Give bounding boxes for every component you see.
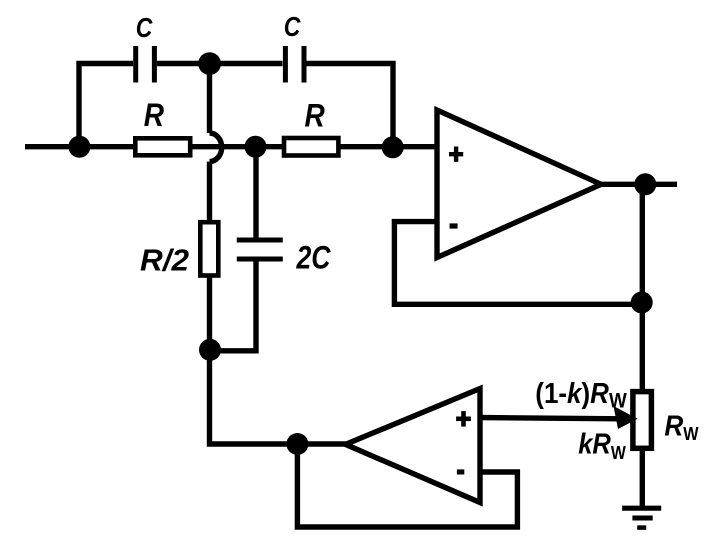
node: twin-T center junction dot: [245, 136, 267, 158]
svg-text:R: R: [144, 97, 164, 133]
wire: C3 bottom to node J5: [210, 260, 256, 351]
op-amp U2 minus sign: [457, 469, 464, 474]
svg-text:C: C: [284, 11, 301, 42]
wire: main input horizontal line: [25, 144, 440, 149]
capacitor C2 plates: [285, 46, 304, 83]
wire: C2 to op-amp U1 + input riser: [307, 64, 394, 151]
wire: U1 output to right: [598, 182, 677, 187]
resistor R2: [284, 138, 338, 156]
op-amp U1 minus sign: [450, 223, 458, 228]
op-amp U1: [437, 110, 601, 258]
wire: U1 output down to potentiometer RW: [640, 184, 645, 392]
node J5: R/2 and 2C bottom junction dot: [199, 339, 221, 361]
wire: node A vertical down to hop: [207, 61, 212, 133]
svg-text:R/2: R/2: [140, 242, 189, 277]
wire hop: crossing arc over main wire: [210, 133, 222, 162]
op-amp U2 plus sign: [456, 411, 471, 427]
node: input junction dot: [68, 136, 90, 158]
wire: U2 feedback output to inverting input: [297, 444, 517, 527]
svg-text:RW: RW: [664, 411, 698, 445]
svg-text:C: C: [136, 12, 153, 43]
wire: hop down to R3: [207, 162, 212, 223]
wire: node A to C2: [209, 61, 283, 66]
wire: left vertical riser to top-T: [79, 64, 133, 148]
op-amp U2: [346, 389, 481, 503]
capacitor C1 plates: [136, 46, 155, 83]
wiper arrowhead: [614, 406, 638, 429]
svg-text:(1-k)RW: (1-k)RW: [535, 378, 627, 413]
resistor R3 (R/2): [200, 222, 218, 275]
node: U1 + input junction dot: [382, 136, 404, 158]
node: U2 output junction dot: [286, 433, 308, 455]
wire: node J5 down and right to op-amp U2 output: [210, 348, 353, 444]
wire: wiper arrow line from U2 + input: [478, 418, 622, 419]
node: feedback junction dot on pot line: [631, 292, 653, 314]
wire: U1 feedback from - input to output node: [394, 222, 641, 305]
node: U1 output junction dot: [634, 173, 656, 195]
svg-text:kRW: kRW: [578, 429, 626, 464]
capacitor C3 (2C) plates: [237, 240, 283, 259]
ground: [622, 508, 661, 527]
potentiometer RW body: [633, 392, 652, 449]
resistor R1: [135, 138, 190, 155]
wire: between C1 and node A: [157, 61, 212, 66]
wire: node D3 down to capacitor C3: [253, 145, 258, 239]
svg-text:2C: 2C: [296, 240, 332, 276]
node A (top junction dot): [198, 52, 221, 75]
op-amp U1 plus sign: [449, 147, 463, 162]
wire: R3 bottom to node J5: [207, 276, 212, 352]
svg-text:R: R: [305, 98, 325, 134]
wire: RW bottom to ground: [640, 450, 645, 506]
